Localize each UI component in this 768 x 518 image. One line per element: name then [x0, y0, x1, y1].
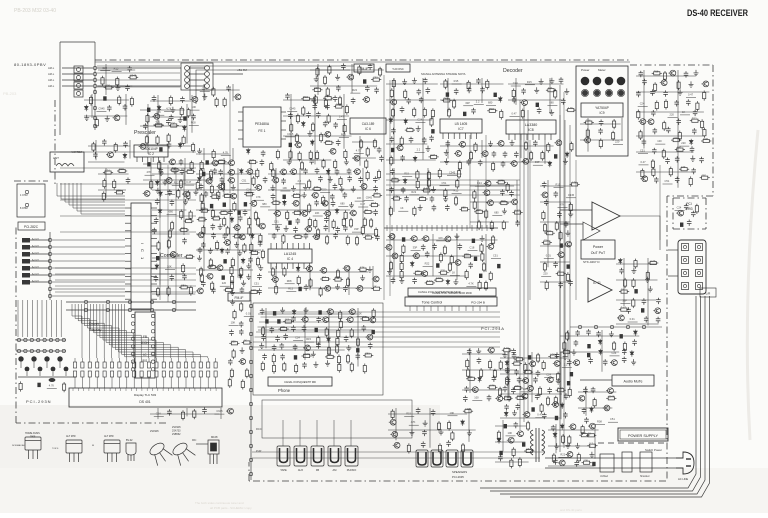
capacitor [330, 194, 335, 200]
resistor [570, 183, 580, 186]
wire [507, 352, 509, 398]
capacitor [333, 96, 338, 102]
transistor [495, 396, 502, 402]
wire [165, 194, 175, 196]
IC2 pin [152, 157, 154, 162]
capacitor [347, 176, 352, 182]
wire [62, 73, 93, 75]
cap [641, 308, 644, 312]
ground [645, 277, 650, 283]
IC801 pin [131, 337, 134, 340]
resistor [187, 190, 190, 200]
svg-text:4.7K: 4.7K [498, 178, 504, 182]
IC801 pin [131, 368, 134, 371]
resistor [216, 240, 219, 250]
display resistor [103, 362, 106, 368]
pin tick [205, 388, 207, 391]
wire [560, 335, 639, 337]
lead [118, 377, 120, 388]
svg-text:4.7K: 4.7K [489, 383, 495, 387]
diode [123, 153, 127, 159]
resistor [566, 109, 576, 112]
key switch [17, 349, 20, 352]
FE1 pin [281, 129, 286, 131]
resistor [542, 360, 545, 370]
IC2 pin [136, 157, 138, 162]
svg-text:A-OUT: A-OUT [32, 245, 39, 248]
lead [133, 358, 135, 362]
svg-text:R22: R22 [560, 452, 565, 456]
resistor [413, 107, 416, 117]
wire [268, 173, 352, 175]
wire [500, 373, 561, 375]
svg-text:2.2: 2.2 [476, 99, 480, 103]
display resistor [133, 371, 136, 377]
op-amp U10 [592, 202, 620, 230]
resistor [512, 88, 515, 98]
display resistor [170, 362, 173, 368]
svg-text:C24: C24 [102, 66, 107, 70]
svg-text:R08: R08 [191, 121, 196, 125]
resistor [545, 232, 555, 235]
transistor [702, 81, 709, 87]
cap [315, 328, 318, 332]
wire [91, 94, 93, 118]
diode [158, 208, 162, 214]
wire [88, 145, 130, 147]
display resistor [162, 371, 165, 377]
capacitor [563, 412, 568, 418]
IC1 pin [125, 207, 131, 209]
IC1 pin [151, 283, 157, 285]
svg-text:C51: C51 [156, 121, 161, 125]
crystal M108 [208, 440, 219, 464]
ground [328, 176, 333, 182]
border top [95, 59, 630, 61]
resistor [181, 410, 184, 420]
wire [447, 78, 449, 112]
wire [636, 151, 694, 153]
IC1 pin [125, 275, 131, 277]
resistor [423, 107, 426, 117]
capacitor [412, 278, 417, 284]
transistor [321, 317, 328, 323]
resistor [201, 202, 204, 212]
display resistor [125, 371, 128, 377]
cap [554, 154, 557, 158]
tick [466, 225, 468, 231]
svg-text:C24: C24 [640, 102, 645, 106]
resistor [275, 285, 278, 295]
IC1 pin [151, 237, 157, 239]
wire [515, 78, 517, 105]
resistor [485, 209, 488, 219]
ground [314, 76, 319, 82]
wire [440, 145, 554, 147]
border left [15, 225, 17, 423]
svg-text:R15: R15 [288, 287, 293, 291]
ground [512, 410, 517, 416]
wire [638, 106, 648, 108]
svg-text:M108: M108 [211, 435, 218, 439]
border bottom left [16, 422, 166, 424]
wire [639, 164, 649, 166]
capacitor [309, 158, 314, 164]
wire [203, 168, 205, 271]
node [48, 280, 51, 283]
resistor [95, 118, 98, 128]
resistor [427, 171, 430, 181]
resistor [302, 354, 312, 357]
resistor [103, 179, 106, 189]
svg-text:0.47: 0.47 [621, 306, 627, 310]
transistor [229, 193, 236, 199]
capacitor [515, 220, 520, 226]
transistor [143, 191, 150, 197]
psu box outer [618, 428, 668, 441]
resistor [323, 75, 326, 85]
transistor [196, 288, 203, 294]
transistor [271, 277, 278, 283]
svg-text:Unfilled: Unfilled [600, 475, 609, 478]
lead [89, 358, 91, 362]
capacitor [304, 284, 309, 290]
capacitor [204, 191, 209, 197]
key switch [17, 338, 20, 341]
ground [575, 443, 580, 449]
wire [143, 179, 213, 181]
resistor [518, 457, 521, 467]
wire [157, 408, 159, 419]
svg-text:10K: 10K [231, 321, 236, 325]
capacitor [675, 177, 680, 183]
ground [241, 280, 246, 286]
ground [510, 140, 515, 146]
svg-text:R15: R15 [406, 412, 411, 416]
capacitor [425, 251, 430, 257]
wire [491, 258, 501, 260]
ground [571, 349, 576, 355]
capacitor [368, 64, 373, 70]
capacitor [553, 458, 558, 464]
capacitor [547, 387, 552, 393]
svg-text:AM-L: AM-L [48, 66, 55, 70]
scan wire [66, 309, 196, 311]
capacitor [501, 161, 506, 167]
capacitor [535, 394, 540, 400]
transistor [273, 211, 280, 217]
svg-text:47K: 47K [147, 170, 152, 174]
ground [631, 268, 636, 274]
svg-text:R08: R08 [501, 199, 506, 203]
display fan wire [125, 304, 208, 358]
capacitor [404, 196, 409, 202]
op-amp U10b [583, 222, 600, 240]
ground [246, 274, 251, 280]
long vertical [569, 125, 571, 390]
resistor [231, 258, 234, 268]
wire [409, 194, 419, 196]
capacitor [285, 93, 290, 99]
capacitor [271, 194, 276, 200]
resistor [283, 362, 286, 372]
capacitor [464, 386, 469, 392]
resistor [325, 355, 335, 358]
capacitor [179, 159, 184, 165]
wire [190, 66, 354, 100]
ground [488, 141, 493, 147]
speaker jack 4 [461, 450, 473, 467]
wire [679, 145, 689, 147]
capacitor [429, 135, 434, 141]
wire [447, 140, 449, 159]
transistor [326, 309, 333, 315]
svg-text:C51: C51 [274, 219, 279, 223]
capacitor [313, 103, 318, 109]
svg-text:R22: R22 [352, 88, 357, 92]
resistor [641, 169, 644, 179]
resistor [311, 122, 314, 132]
capacitor [691, 211, 696, 217]
capacitor [575, 330, 580, 336]
resistor [369, 204, 379, 207]
resistor [365, 159, 368, 169]
wire [352, 157, 376, 159]
capacitor [504, 404, 509, 410]
IC2 pin [158, 157, 160, 162]
resistor [223, 217, 226, 227]
svg-text:C945: C945 [304, 352, 311, 356]
ground [476, 348, 481, 354]
capacitor [154, 217, 159, 223]
transistor [640, 176, 647, 182]
transistor [356, 286, 363, 292]
resistor [322, 159, 325, 169]
pin tick [430, 306, 432, 311]
resistor [89, 95, 92, 105]
capacitor [336, 140, 341, 146]
svg-text:680: 680 [488, 100, 493, 104]
wire [547, 105, 557, 107]
resistor [297, 275, 300, 285]
resistor [677, 80, 680, 90]
capacitor [537, 108, 542, 114]
display resistor [88, 362, 91, 368]
capacitor [656, 298, 661, 304]
connector pin 6 [22, 273, 30, 278]
transistor [366, 334, 373, 340]
svg-text:A-OUT: A-OUT [32, 252, 39, 255]
wire [98, 189, 126, 191]
svg-text:C18: C18 [436, 276, 441, 280]
display fan wire [119, 304, 194, 358]
resistor [283, 267, 286, 277]
capacitor [675, 156, 680, 162]
svg-text:680: 680 [702, 174, 707, 178]
resistor [308, 179, 311, 189]
resistor [184, 220, 194, 223]
capacitor [229, 330, 234, 336]
ground [344, 159, 349, 165]
IC2 pin [147, 157, 149, 162]
capacitor [574, 460, 579, 466]
svg-text:C24: C24 [477, 181, 482, 185]
transistor [521, 393, 528, 399]
svg-text:220: 220 [322, 188, 327, 192]
capacitor [377, 147, 382, 153]
capacitor [373, 186, 378, 192]
IC1 pin [151, 215, 157, 217]
resistor [502, 397, 512, 400]
cap [560, 243, 563, 247]
resistor [422, 189, 432, 192]
diode [296, 266, 300, 272]
matrix column [41, 300, 43, 337]
IC7 pin [476, 133, 478, 139]
capacitor [291, 316, 296, 322]
resistor [223, 97, 226, 107]
tick [456, 225, 458, 231]
svg-text:4.7K: 4.7K [294, 209, 300, 213]
amp out wire [620, 216, 660, 250]
svg-text:10K: 10K [357, 196, 362, 200]
connector pin 7 [22, 280, 30, 285]
ground [335, 284, 340, 290]
svg-text:C51: C51 [373, 76, 378, 80]
ground [387, 269, 392, 275]
wire [283, 135, 352, 137]
resistor [480, 368, 483, 378]
transistor [329, 148, 336, 154]
pin tick [88, 388, 90, 391]
meter block [576, 66, 628, 156]
wire [364, 199, 374, 201]
svg-text:PB-203: PB-203 [3, 91, 17, 96]
diode [241, 258, 245, 264]
connector pin 3 [22, 252, 30, 257]
capacitor [509, 190, 514, 196]
cap [504, 424, 507, 428]
capacitor [240, 287, 245, 293]
diode [155, 180, 159, 186]
IC1 controller [131, 203, 151, 309]
wire [293, 340, 303, 342]
wire [237, 168, 239, 278]
wire [474, 103, 484, 105]
IC1 pin [125, 237, 131, 239]
cap [431, 129, 434, 133]
tick [386, 225, 388, 231]
wire [502, 420, 504, 451]
resistor [302, 106, 305, 116]
package TO92 angled 2 [170, 440, 196, 466]
tick [426, 225, 428, 231]
wire [533, 164, 543, 166]
node [48, 245, 51, 248]
svg-text:C51: C51 [209, 263, 214, 267]
wire [680, 114, 690, 116]
svg-text:R08: R08 [287, 279, 292, 283]
transistor [191, 97, 198, 103]
resistor [389, 206, 392, 216]
resistor [373, 139, 376, 149]
resistor [429, 155, 439, 158]
resistor [561, 351, 571, 354]
ground [346, 345, 351, 351]
pin tick [72, 388, 74, 391]
resistor [400, 270, 403, 280]
capacitor [324, 217, 329, 223]
resistor [202, 225, 205, 235]
capacitor [506, 378, 511, 384]
svg-text:C945: C945 [608, 394, 615, 398]
wire [95, 140, 97, 160]
resistor [587, 444, 597, 447]
key switch [37, 338, 40, 341]
antenna box [50, 152, 84, 172]
svg-text:100: 100 [246, 190, 251, 194]
ground [453, 279, 458, 285]
psu boundary [262, 400, 412, 438]
lead [141, 358, 143, 362]
wire [275, 266, 277, 285]
capacitor [642, 79, 647, 85]
wire [152, 173, 183, 175]
PCI-2993 right [705, 198, 707, 229]
display fan wire [100, 304, 149, 358]
wire [525, 84, 535, 86]
capacitor [514, 151, 519, 157]
long vertical [527, 110, 529, 414]
capacitor [564, 221, 569, 227]
transistor [553, 361, 560, 367]
band transistor [44, 356, 49, 361]
resistor [390, 179, 400, 182]
tick [416, 225, 418, 231]
border corner vertical [59, 42, 61, 135]
svg-text:33P: 33P [523, 387, 528, 391]
svg-text:R15: R15 [654, 69, 659, 73]
display fan wire [109, 304, 171, 358]
resistor [581, 425, 584, 435]
svg-text:C18: C18 [371, 201, 376, 205]
wire [268, 271, 369, 273]
svg-text:10K: 10K [419, 195, 424, 199]
resistor [438, 168, 441, 178]
capacitor [514, 422, 519, 428]
resistor [405, 129, 415, 132]
ground [197, 255, 202, 261]
wire [240, 182, 250, 184]
pin tick [199, 388, 201, 391]
lead [96, 358, 98, 362]
svg-text:220: 220 [514, 360, 519, 364]
transistor [271, 177, 278, 183]
IC8 pin [544, 134, 546, 140]
resistor [334, 159, 337, 169]
svg-text:100: 100 [219, 158, 224, 162]
display resistor [110, 371, 113, 377]
wire [285, 136, 295, 138]
capacitor [261, 335, 266, 341]
IC4 pin [270, 243, 272, 249]
resistor [157, 241, 160, 251]
wire [558, 207, 568, 209]
IC801 pin [151, 352, 154, 355]
wire [520, 140, 522, 158]
matrix column [17, 300, 19, 337]
node [249, 402, 252, 405]
